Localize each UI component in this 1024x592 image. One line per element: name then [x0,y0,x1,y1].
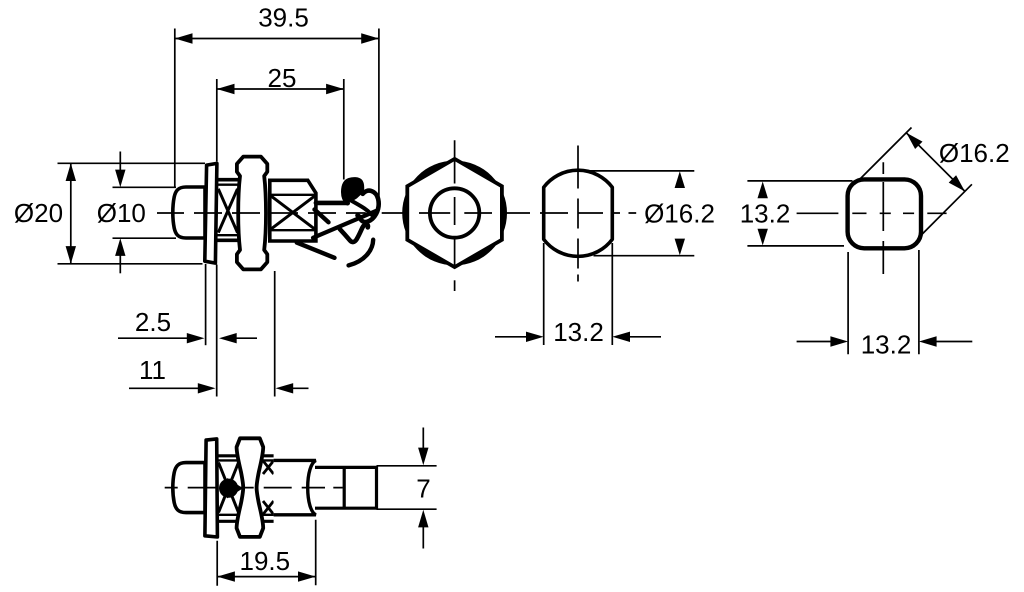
dimension 39.5 arrowheads [175,33,379,43]
dimension D16.2 arrowheads [675,171,685,255]
bottom small cross upper [263,461,274,474]
head (button) [173,187,205,238]
extension line flange right face [216,265,218,397]
dimension 25 arrowheads [217,84,344,94]
hex nut side view [237,157,267,270]
svg-text:Ø16.2: Ø16.2 [939,138,1010,168]
dimension D20 extension lines [58,163,206,263]
left threaded panel bottom edge [217,239,240,243]
spring cone [219,479,238,498]
svg-text:Ø10: Ø10 [97,198,146,228]
dimension 39.5 line [175,38,380,40]
dimension D10 extension lines [113,187,177,238]
flange washer [205,163,217,263]
core circle [430,188,479,237]
dimension D20 arrowheads [66,163,76,263]
extension line flange left face [205,264,207,345]
hex nut front outline [407,159,502,267]
svg-text:Ø20: Ø20 [14,198,63,228]
right threaded section band lines [270,195,316,230]
extension line nut right face [274,271,276,397]
square horizontal centerline [797,212,947,214]
dimension D20 line [70,163,72,263]
pawl tip squiggle [340,224,368,242]
pawl arm top edge [316,201,348,206]
dimension D10 lower arrow [119,256,121,274]
pawl strip rear edge [351,201,372,215]
pawl hook crest fill [343,180,362,203]
hexagon vertical centerline [454,140,456,266]
tongue divider [343,467,346,508]
hexagon front view [402,140,507,291]
svg-text:39.5: 39.5 [258,3,309,33]
dimension 13.2 extension lines [544,243,613,345]
dimension 25 line [217,88,344,90]
pawl lower-left diagonal [297,243,335,258]
double-D vertical centerline [577,146,579,282]
right threaded section outline [270,180,316,241]
bottom barrel with domed end [274,460,316,514]
diagonal dimension line [906,133,965,192]
square 13.2 bottom extension lines [848,250,919,354]
tongue plate [315,467,377,508]
square 13.2 left arrowheads [758,182,768,246]
dimension 2.5 leader left [118,337,188,339]
svg-text:13.2: 13.2 [553,317,604,347]
svg-text:25: 25 [268,63,297,93]
dimension D10 upper arrow [119,152,121,171]
dimension 13.2 arrows [495,336,527,338]
left threaded panel top band line [217,183,240,185]
bottom panel cross [219,463,239,513]
bottom head (button) [173,463,205,513]
bottom view centerline [165,487,343,489]
square 13.2 bottom arrows [797,341,831,343]
diagonal extension line upper [855,128,912,185]
svg-text:11: 11 [139,355,166,385]
dimension 7 lower arrow [422,526,424,549]
svg-text:19.5: 19.5 [239,546,290,576]
rounded square cam view [740,128,1010,360]
pawl swing arc [349,240,374,266]
square vertical centerline [882,162,884,274]
bottom view: lock rotated 90 degrees [165,428,437,586]
dimension 11 leader right [292,387,309,389]
view 1: side view of lock [14,3,379,397]
flange circle behind nut [402,161,507,266]
dimension D16.2 extension lines [578,171,694,256]
svg-text:2.5: 2.5 [135,307,171,337]
double-D cam hole view [495,146,715,348]
dimension 2.5 leader right [236,337,257,339]
svg-text:13.2: 13.2 [861,330,912,360]
left threaded panel top edge [217,178,240,182]
bottom hex nut (spool) [237,438,264,537]
dimension 11 leader left [129,387,198,389]
pawl hook head outer edge [343,179,378,222]
left threaded panel cross [218,189,237,233]
svg-text:Ø16.2: Ø16.2 [644,198,715,228]
dimension 7 upper arrow [422,428,424,450]
double-D outline [544,170,613,256]
bottom flange washer [205,439,218,537]
hexagon vertical centerline bottom dash [454,280,456,291]
pawl short edge stub [315,210,329,223]
bottom bottom band lines [218,514,274,516]
diagonal extension line lower [921,184,972,235]
pawl lower edge diagonal [313,211,376,238]
dimension 19.5 line [217,576,316,578]
dimension 19.5 extension lines [217,520,316,586]
dimension 7 extension lines [377,466,437,509]
left threaded panel bottom band line [217,234,240,236]
diagonal dimension arrowheads [906,133,965,192]
bottom small cross lower [263,501,274,514]
square 13.2 left extension lines [747,181,852,246]
right threaded section cross [271,196,315,229]
dimension 25 extension lines [217,79,344,180]
svg-text:7: 7 [416,473,430,503]
svg-text:13.2: 13.2 [740,198,791,228]
main horizontal centerline [157,212,636,214]
dimension 39.5 extension lines [175,29,379,206]
dimension 19.5 arrowheads [217,571,316,581]
bottom top band lines [218,454,274,457]
rounded square outline [848,179,921,248]
